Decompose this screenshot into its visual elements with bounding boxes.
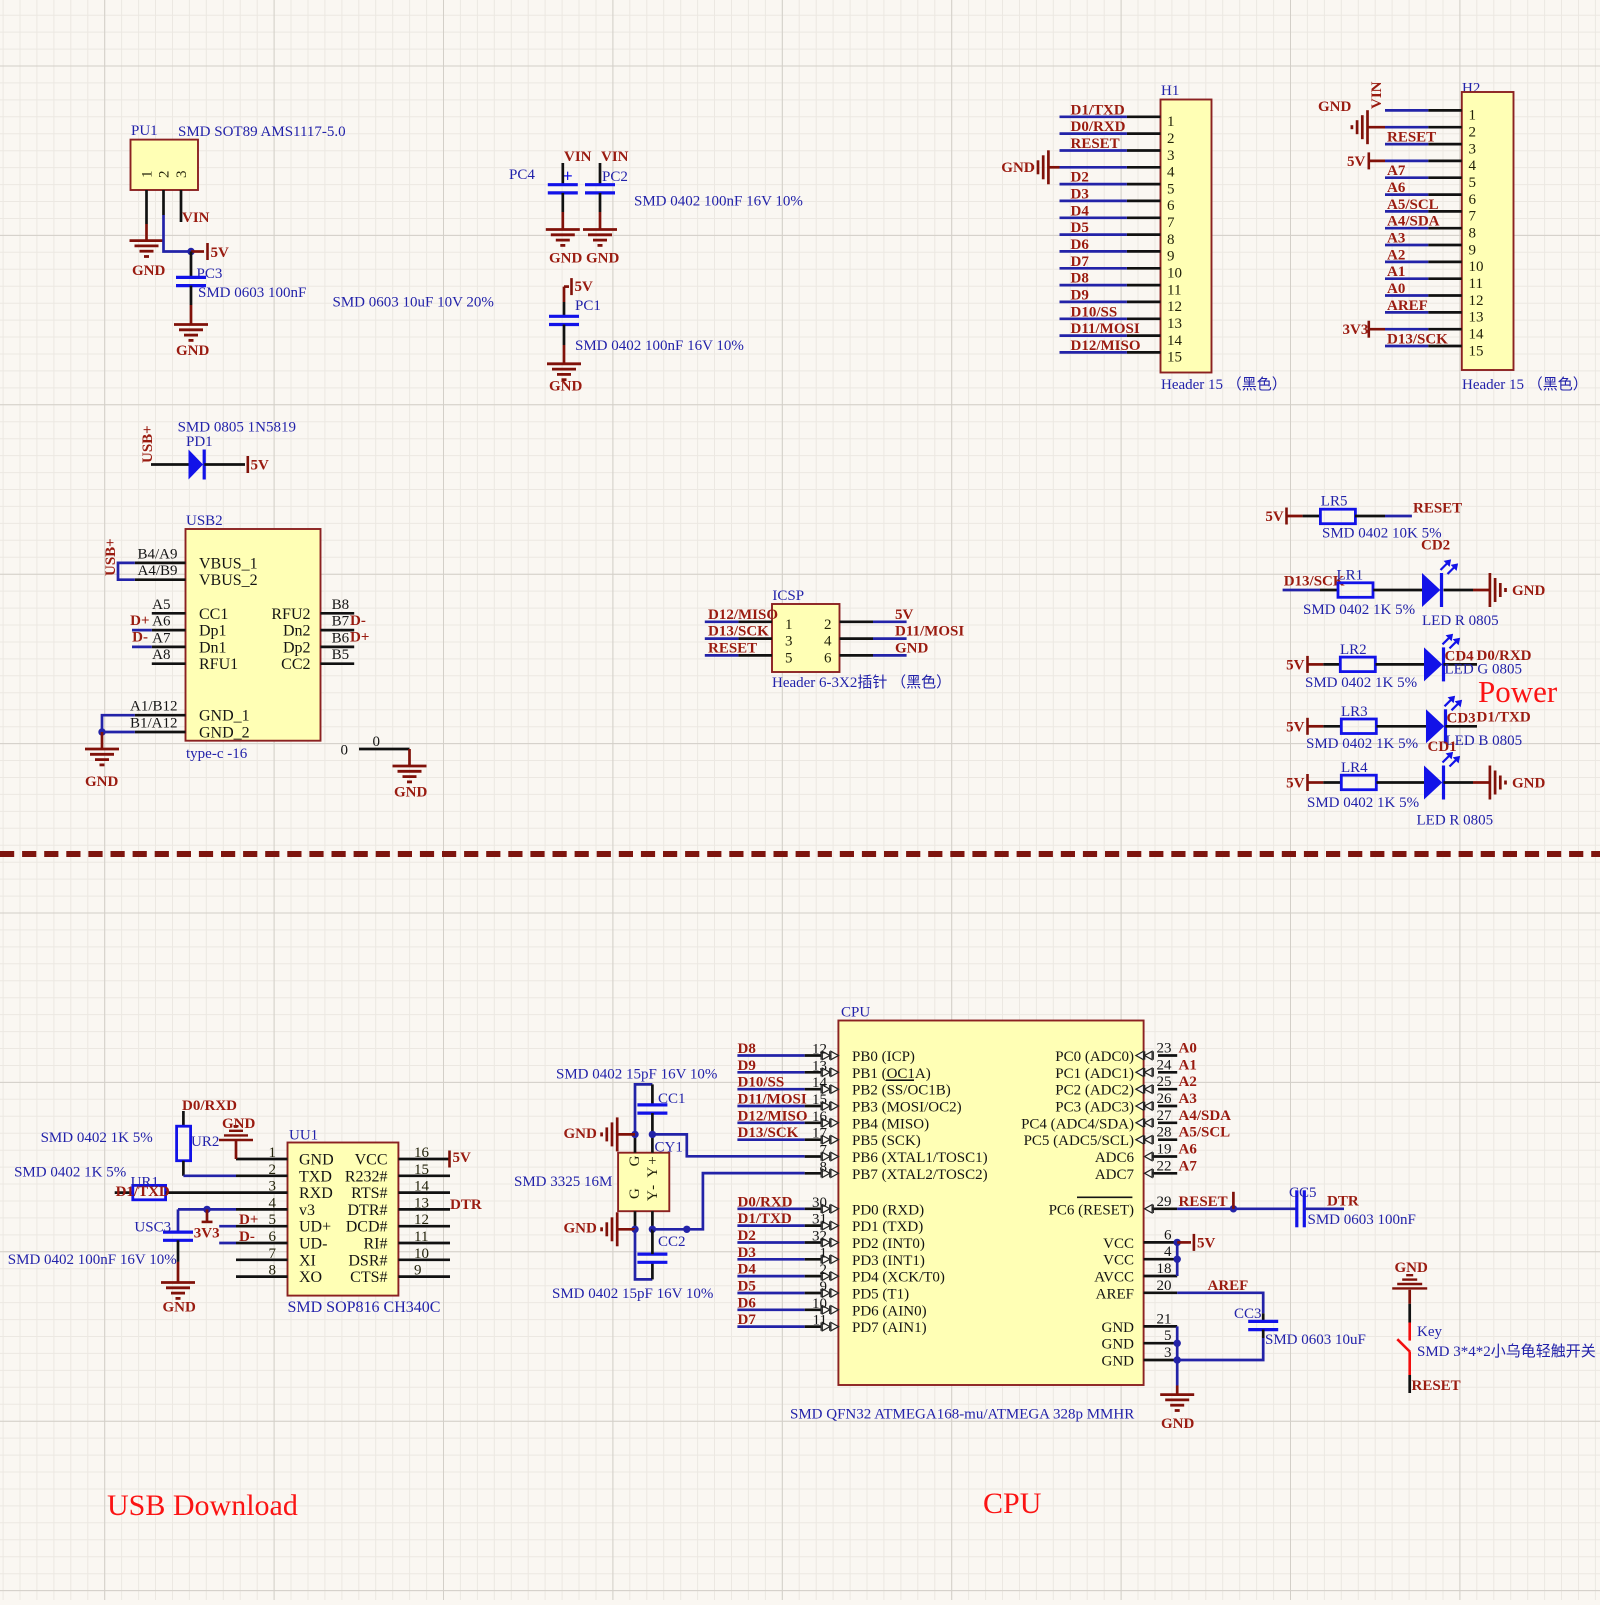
svg-text:GND: GND: [1395, 1260, 1429, 1276]
svg-text:UD-: UD-: [299, 1236, 327, 1253]
svg-text:0: 0: [341, 743, 349, 759]
svg-text:5: 5: [1469, 175, 1477, 191]
svg-text:RFU2: RFU2: [271, 606, 310, 623]
svg-text:AVCC: AVCC: [1094, 1270, 1134, 1286]
svg-text:A8: A8: [152, 647, 170, 663]
svg-text:VIN: VIN: [182, 210, 210, 226]
svg-text:GND: GND: [586, 251, 620, 267]
svg-text:type-c -16: type-c -16: [186, 746, 248, 762]
svg-text:SMD 0402 1K 5%: SMD 0402 1K 5%: [1303, 602, 1415, 618]
svg-text:Key: Key: [1417, 1324, 1442, 1340]
svg-text:D13/SCK: D13/SCK: [738, 1125, 799, 1141]
svg-text:GND: GND: [895, 640, 929, 656]
svg-text:D12/MISO: D12/MISO: [738, 1108, 808, 1124]
svg-text:DTR: DTR: [1327, 1194, 1359, 1210]
svg-text:DTR#: DTR#: [348, 1202, 388, 1219]
svg-text:2: 2: [824, 617, 832, 633]
svg-text:D4: D4: [738, 1262, 757, 1278]
svg-text:12: 12: [812, 1042, 827, 1058]
svg-text:RESET: RESET: [1071, 136, 1120, 152]
svg-text:USB+: USB+: [103, 538, 119, 576]
svg-text:LED B 0805: LED B 0805: [1446, 733, 1523, 749]
svg-text:3: 3: [1167, 148, 1175, 164]
svg-text:PC4: PC4: [509, 167, 535, 183]
svg-text:VCC: VCC: [1103, 1236, 1134, 1252]
svg-text:GND: GND: [1102, 1354, 1135, 1370]
svg-text:Dp2: Dp2: [283, 639, 311, 656]
svg-text:A2: A2: [1179, 1074, 1197, 1090]
svg-text:A7: A7: [1179, 1158, 1198, 1174]
svg-text:30: 30: [812, 1195, 827, 1211]
svg-text:PC1: PC1: [575, 298, 601, 314]
svg-text:AREF: AREF: [1208, 1278, 1249, 1294]
svg-text:v3: v3: [299, 1202, 315, 1219]
svg-text:VBUS_1: VBUS_1: [199, 555, 258, 572]
svg-text:14: 14: [812, 1075, 828, 1091]
svg-text:PB2 (SS/OC1B): PB2 (SS/OC1B): [852, 1083, 951, 1099]
svg-text:SMD 0402 1K 5%: SMD 0402 1K 5%: [1305, 675, 1417, 691]
svg-text:2: 2: [1167, 131, 1175, 147]
svg-text:SMD 0402 1K 5%: SMD 0402 1K 5%: [1307, 795, 1419, 811]
svg-text:USB2: USB2: [186, 513, 223, 529]
svg-text:Dn1: Dn1: [199, 639, 227, 656]
svg-text:SMD 0402 100nF 16V 10%: SMD 0402 100nF 16V 10%: [634, 194, 803, 210]
svg-text:SMD 3325 16M: SMD 3325 16M: [514, 1174, 612, 1190]
svg-text:A1: A1: [1387, 264, 1405, 280]
svg-text:14: 14: [1167, 333, 1183, 349]
svg-text:5V: 5V: [1286, 720, 1305, 736]
svg-text:Header 6-3X2插针 （黑色）: Header 6-3X2插针 （黑色）: [772, 674, 951, 691]
svg-text:A5/SCL: A5/SCL: [1387, 197, 1439, 213]
svg-text:7: 7: [1167, 215, 1175, 231]
svg-text:5V: 5V: [1265, 509, 1284, 525]
svg-text:26: 26: [1157, 1091, 1173, 1107]
svg-text:4: 4: [824, 634, 832, 650]
svg-text:GND: GND: [222, 1116, 256, 1132]
svg-text:7: 7: [820, 1143, 828, 1159]
svg-text:D-: D-: [132, 630, 148, 646]
svg-text:10: 10: [1469, 259, 1484, 275]
svg-text:D10/SS: D10/SS: [1071, 304, 1118, 320]
svg-text:PD1: PD1: [186, 434, 213, 450]
svg-text:27: 27: [1157, 1108, 1173, 1124]
svg-text:CC2: CC2: [658, 1234, 686, 1250]
svg-text:SMD 0402 1K 5%: SMD 0402 1K 5%: [14, 1165, 126, 1181]
svg-text:A4/B9: A4/B9: [137, 563, 177, 579]
svg-text:D11/MOSI: D11/MOSI: [895, 624, 964, 640]
svg-text:CY1: CY1: [655, 1140, 683, 1156]
svg-text:13: 13: [1167, 316, 1182, 332]
svg-text:13: 13: [812, 1058, 827, 1074]
svg-text:Dp1: Dp1: [199, 623, 227, 640]
svg-text:D4: D4: [1071, 203, 1090, 219]
svg-text:D3: D3: [1071, 186, 1089, 202]
svg-text:D1/TXD: D1/TXD: [738, 1211, 792, 1227]
svg-text:3V3: 3V3: [1343, 322, 1369, 338]
svg-text:SMD 3*4*2小乌龟轻触开关: SMD 3*4*2小乌龟轻触开关: [1417, 1343, 1596, 1360]
svg-text:8: 8: [820, 1159, 828, 1175]
svg-text:A7: A7: [1387, 163, 1406, 179]
svg-text:CTS#: CTS#: [350, 1269, 387, 1286]
svg-text:DTR: DTR: [450, 1197, 482, 1213]
svg-text:PC2 (ADC2): PC2 (ADC2): [1055, 1083, 1134, 1099]
svg-text:CC5: CC5: [1289, 1185, 1317, 1201]
svg-text:D1/TXD: D1/TXD: [116, 1184, 170, 1200]
svg-text:CPU: CPU: [841, 1005, 870, 1021]
svg-text:GND_2: GND_2: [199, 725, 250, 742]
svg-text:GND: GND: [394, 785, 428, 801]
svg-text:10: 10: [1167, 266, 1182, 282]
svg-text:23: 23: [1157, 1041, 1172, 1057]
svg-text:GND: GND: [1001, 160, 1035, 176]
svg-text:A5: A5: [152, 597, 170, 613]
svg-text:D0/RXD: D0/RXD: [1071, 119, 1126, 135]
svg-text:LR3: LR3: [1341, 704, 1368, 720]
svg-text:D12/MISO: D12/MISO: [1071, 338, 1141, 354]
svg-text:SMD SOP816 CH340C: SMD SOP816 CH340C: [288, 1299, 441, 1316]
svg-text:8: 8: [1469, 226, 1477, 242]
svg-text:RESET: RESET: [1413, 501, 1462, 517]
svg-text:9: 9: [1167, 249, 1175, 265]
svg-text:9: 9: [1469, 242, 1477, 258]
svg-text:GND: GND: [564, 1221, 598, 1237]
svg-text:ADC6: ADC6: [1095, 1150, 1135, 1166]
svg-text:UU1: UU1: [289, 1128, 318, 1144]
svg-text:B1/A12: B1/A12: [130, 716, 178, 732]
svg-text:D6: D6: [738, 1295, 757, 1311]
svg-text:VBUS_2: VBUS_2: [199, 572, 258, 589]
svg-text:15: 15: [1167, 350, 1182, 366]
svg-text:PC6 (RESET): PC6 (RESET): [1049, 1202, 1134, 1218]
svg-text:D5: D5: [738, 1279, 756, 1295]
svg-text:D0/RXD: D0/RXD: [182, 1098, 237, 1114]
svg-text:VIN: VIN: [1369, 81, 1385, 109]
svg-text:5: 5: [1164, 1328, 1172, 1344]
svg-text:PC2: PC2: [602, 169, 628, 185]
svg-text:LR1: LR1: [1337, 568, 1364, 584]
svg-text:3V3: 3V3: [194, 1226, 220, 1242]
svg-text:A4/SDA: A4/SDA: [1179, 1108, 1232, 1124]
svg-text:B5: B5: [332, 647, 350, 663]
svg-text:10: 10: [812, 1296, 827, 1312]
svg-text:A1/B12: A1/B12: [130, 699, 178, 715]
svg-text:11: 11: [1469, 276, 1483, 292]
svg-text:A3: A3: [1387, 231, 1405, 247]
svg-text:LED R 0805: LED R 0805: [1417, 813, 1494, 829]
svg-text:B8: B8: [332, 597, 350, 613]
svg-text:GND: GND: [1102, 1337, 1135, 1353]
svg-text:TXD: TXD: [299, 1168, 332, 1185]
svg-text:31: 31: [812, 1212, 827, 1228]
svg-text:SMD 0603 10uF: SMD 0603 10uF: [1265, 1332, 1366, 1348]
svg-text:USB Download: USB Download: [107, 1489, 298, 1522]
svg-text:1: 1: [1167, 114, 1175, 130]
svg-text:PC0 (ADC0): PC0 (ADC0): [1055, 1049, 1134, 1065]
svg-text:Power: Power: [1478, 674, 1558, 709]
svg-text:PB3 (MOSI/OC2): PB3 (MOSI/OC2): [852, 1100, 962, 1116]
svg-text:PD2 (INT0): PD2 (INT0): [852, 1236, 925, 1252]
svg-text:PD5 (T1): PD5 (T1): [852, 1287, 909, 1303]
svg-text:4: 4: [1167, 165, 1175, 181]
svg-text:CD2: CD2: [1421, 538, 1450, 554]
svg-text:Y- Y+: Y- Y+: [645, 1154, 661, 1201]
svg-text:PU1: PU1: [131, 123, 158, 139]
svg-text:CC1: CC1: [199, 606, 228, 623]
svg-text:5V: 5V: [1347, 154, 1366, 170]
svg-text:A3: A3: [1179, 1091, 1197, 1107]
svg-text:VIN: VIN: [564, 149, 592, 165]
svg-text:6: 6: [1164, 1227, 1172, 1243]
svg-text:9: 9: [820, 1279, 828, 1295]
svg-text:17: 17: [812, 1126, 828, 1142]
svg-text:13: 13: [1469, 310, 1484, 326]
svg-text:B4/A9: B4/A9: [137, 546, 177, 562]
svg-text:GND: GND: [132, 263, 166, 279]
svg-text:G G: G G: [627, 1147, 643, 1199]
svg-text:1: 1: [785, 617, 793, 633]
svg-text:SMD 0603 100nF: SMD 0603 100nF: [1308, 1212, 1416, 1228]
svg-text:B7: B7: [332, 614, 350, 630]
svg-text:3: 3: [1164, 1345, 1172, 1361]
svg-text:GND: GND: [549, 379, 583, 395]
svg-text:SMD 0402 15pF 16V 10%: SMD 0402 15pF 16V 10%: [552, 1286, 713, 1302]
svg-text:3: 3: [174, 171, 190, 179]
svg-text:6: 6: [1167, 198, 1175, 214]
svg-text:VIN: VIN: [601, 149, 629, 165]
svg-text:GND: GND: [564, 1126, 598, 1142]
svg-text:GND: GND: [1102, 1320, 1135, 1336]
svg-text:14: 14: [1469, 327, 1485, 343]
svg-text:RTS#: RTS#: [351, 1185, 387, 1202]
svg-text:PB5 (SCK): PB5 (SCK): [852, 1133, 921, 1149]
svg-text:D10/SS: D10/SS: [738, 1075, 785, 1091]
svg-text:VCC: VCC: [355, 1152, 388, 1169]
svg-text:LED R 0805: LED R 0805: [1422, 613, 1499, 629]
svg-text:D6: D6: [1071, 237, 1090, 253]
svg-text:CC2: CC2: [281, 656, 310, 673]
svg-text:SMD 0603 10uF 10V 20%: SMD 0603 10uF 10V 20%: [333, 295, 494, 311]
svg-text:SMD 0402 100nF 16V 10%: SMD 0402 100nF 16V 10%: [575, 338, 744, 354]
svg-text:7: 7: [1469, 209, 1477, 225]
svg-text:PB7 (XTAL2/TOSC2): PB7 (XTAL2/TOSC2): [852, 1167, 988, 1183]
svg-text:3: 3: [1469, 141, 1477, 157]
svg-text:A5/SCL: A5/SCL: [1179, 1125, 1231, 1141]
svg-text:D2: D2: [738, 1228, 756, 1244]
svg-text:2: 2: [1469, 125, 1477, 141]
svg-text:16: 16: [812, 1109, 828, 1125]
svg-text:24: 24: [1157, 1057, 1173, 1073]
svg-text:PC3: PC3: [197, 266, 223, 282]
svg-text:D11/MOSI: D11/MOSI: [1071, 321, 1140, 337]
svg-text:H1: H1: [1161, 83, 1179, 99]
svg-text:PB6 (XTAL1/TOSC1): PB6 (XTAL1/TOSC1): [852, 1150, 988, 1166]
svg-text:5: 5: [785, 650, 793, 666]
svg-text:RFU1: RFU1: [199, 656, 238, 673]
svg-text:GND: GND: [549, 251, 583, 267]
svg-text:D5: D5: [1071, 220, 1089, 236]
svg-text:D7: D7: [738, 1312, 757, 1328]
svg-text:11: 11: [813, 1313, 827, 1329]
svg-text:GND_1: GND_1: [199, 708, 250, 725]
svg-text:A0: A0: [1387, 281, 1405, 297]
svg-text:PD4 (XCK/T0): PD4 (XCK/T0): [852, 1270, 945, 1286]
svg-text:PB0 (ICP): PB0 (ICP): [852, 1049, 915, 1065]
svg-text:Dn2: Dn2: [283, 623, 311, 640]
svg-text:12: 12: [1167, 299, 1182, 315]
svg-text:15: 15: [1469, 343, 1484, 359]
svg-text:4: 4: [1164, 1244, 1172, 1260]
svg-text:1: 1: [820, 1245, 828, 1261]
svg-text:1: 1: [1469, 108, 1477, 124]
svg-text:GND: GND: [1512, 776, 1546, 792]
svg-text:D13/SCK: D13/SCK: [1387, 332, 1448, 348]
svg-text:Header 15 （黑色）: Header 15 （黑色）: [1161, 376, 1287, 393]
svg-text:2: 2: [157, 171, 173, 179]
svg-text:UD+: UD+: [299, 1219, 331, 1236]
svg-text:5V: 5V: [1286, 776, 1305, 792]
svg-text:19: 19: [1157, 1142, 1172, 1158]
svg-text:D0/RXD: D0/RXD: [738, 1194, 793, 1210]
svg-text:SMD SOT89 AMS1117-5.0: SMD SOT89 AMS1117-5.0: [178, 124, 346, 140]
svg-text:22: 22: [1157, 1158, 1172, 1174]
svg-text:8: 8: [1167, 232, 1175, 248]
svg-text:D13/SCK: D13/SCK: [708, 624, 769, 640]
svg-text:18: 18: [1157, 1261, 1172, 1277]
svg-text:6: 6: [824, 650, 832, 666]
svg-text:0: 0: [373, 734, 381, 750]
svg-text:12: 12: [1469, 293, 1484, 309]
svg-text:CPU: CPU: [983, 1487, 1042, 1520]
svg-text:1: 1: [140, 171, 156, 179]
svg-text:CC1: CC1: [658, 1091, 686, 1107]
svg-text:GND: GND: [1512, 583, 1546, 599]
svg-text:A6: A6: [1179, 1142, 1198, 1158]
svg-text:CD3: CD3: [1447, 711, 1476, 727]
svg-text:5V: 5V: [1197, 1235, 1216, 1251]
svg-text:4: 4: [1469, 158, 1477, 174]
svg-text:D8: D8: [1071, 271, 1089, 287]
svg-text:A6: A6: [1387, 180, 1406, 196]
svg-text:AREF: AREF: [1387, 298, 1428, 314]
svg-text:D12/MISO: D12/MISO: [708, 607, 778, 623]
svg-text:D+: D+: [350, 630, 369, 646]
svg-text:VCC: VCC: [1103, 1253, 1134, 1269]
svg-text:5V: 5V: [1286, 658, 1305, 674]
svg-text:D11/MOSI: D11/MOSI: [738, 1092, 807, 1108]
svg-text:RESET: RESET: [1179, 1194, 1228, 1210]
svg-text:A0: A0: [1179, 1041, 1197, 1057]
svg-text:PC5 (ADC5/SCL): PC5 (ADC5/SCL): [1024, 1133, 1134, 1149]
svg-text:D-: D-: [239, 1229, 255, 1245]
svg-text:SMD 0402 100nF 16V 10%: SMD 0402 100nF 16V 10%: [8, 1252, 177, 1268]
svg-text:28: 28: [1157, 1125, 1172, 1141]
svg-text:USB+: USB+: [140, 425, 156, 463]
svg-text:GND: GND: [176, 343, 210, 359]
svg-text:5V: 5V: [575, 279, 594, 295]
svg-text:D9: D9: [1071, 287, 1089, 303]
svg-text:A4/SDA: A4/SDA: [1387, 214, 1440, 230]
svg-text:D9: D9: [738, 1058, 756, 1074]
svg-text:GND: GND: [163, 1300, 197, 1316]
svg-text:D+: D+: [239, 1212, 258, 1228]
svg-text:DSR#: DSR#: [348, 1252, 387, 1269]
svg-text:CC3: CC3: [1234, 1306, 1262, 1322]
svg-text:PC4 (ADC4/SDA): PC4 (ADC4/SDA): [1021, 1116, 1134, 1132]
svg-text:LR5: LR5: [1321, 494, 1348, 510]
svg-text:PD7 (AIN1): PD7 (AIN1): [852, 1320, 927, 1336]
svg-text:PB4 (MISO): PB4 (MISO): [852, 1116, 929, 1132]
svg-text:5V: 5V: [453, 1150, 472, 1166]
svg-text:B6: B6: [332, 630, 350, 646]
svg-text:2: 2: [820, 1262, 828, 1278]
svg-text:A2: A2: [1387, 247, 1405, 263]
svg-text:21: 21: [1157, 1311, 1172, 1327]
svg-text:SMD 0402 15pF 16V 10%: SMD 0402 15pF 16V 10%: [556, 1067, 717, 1083]
svg-text:RESET: RESET: [1412, 1378, 1461, 1394]
svg-text:USC3: USC3: [134, 1220, 171, 1236]
svg-text:29: 29: [1157, 1194, 1172, 1210]
svg-text:32: 32: [812, 1229, 827, 1245]
svg-text:RI#: RI#: [364, 1236, 388, 1253]
svg-text:GND: GND: [85, 774, 119, 790]
svg-text:6: 6: [1469, 192, 1477, 208]
svg-text:AREF: AREF: [1096, 1286, 1134, 1302]
svg-text:PD1 (TXD): PD1 (TXD): [852, 1219, 923, 1235]
svg-text:ICSP: ICSP: [772, 588, 804, 604]
svg-text:D2: D2: [1071, 170, 1089, 186]
svg-text:5: 5: [1167, 181, 1175, 197]
svg-text:SMD 0603 100nF: SMD 0603 100nF: [198, 285, 306, 301]
svg-text:3: 3: [785, 634, 793, 650]
svg-text:PD6 (AIN0): PD6 (AIN0): [852, 1303, 927, 1319]
svg-text:25: 25: [1157, 1074, 1172, 1090]
svg-text:PC3 (ADC3): PC3 (ADC3): [1055, 1100, 1134, 1116]
svg-text:GND: GND: [1318, 99, 1352, 115]
svg-text:5V: 5V: [895, 607, 914, 623]
svg-text:D3: D3: [738, 1245, 756, 1261]
svg-text:XO: XO: [299, 1269, 322, 1286]
svg-text:PC1 (ADC1): PC1 (ADC1): [1055, 1066, 1134, 1082]
svg-text:PD3 (INT1): PD3 (INT1): [852, 1253, 925, 1269]
svg-text:SMD 0402 1K 5%: SMD 0402 1K 5%: [41, 1130, 153, 1146]
svg-text:SMD QFN32 ATMEGA168-mu/ATMEGA: SMD QFN32 ATMEGA168-mu/ATMEGA 328p MMHR: [790, 1407, 1134, 1423]
svg-text:RESET: RESET: [708, 640, 757, 656]
svg-text:5V: 5V: [251, 458, 270, 474]
svg-text:20: 20: [1157, 1278, 1172, 1294]
svg-text:A1: A1: [1179, 1057, 1197, 1073]
svg-text:15: 15: [812, 1092, 827, 1108]
svg-text:5V: 5V: [211, 245, 230, 261]
svg-text:Header 15 （黑色）: Header 15 （黑色）: [1462, 376, 1588, 393]
svg-text:DCD#: DCD#: [346, 1219, 388, 1236]
svg-text:A7: A7: [152, 630, 171, 646]
svg-text:XI: XI: [299, 1252, 316, 1269]
svg-text:LR4: LR4: [1341, 760, 1368, 776]
svg-text:SMD 0402 1K 5%: SMD 0402 1K 5%: [1306, 736, 1418, 752]
svg-text:ADC7: ADC7: [1095, 1167, 1135, 1183]
svg-text:GND: GND: [1161, 1416, 1195, 1432]
svg-text:D7: D7: [1071, 254, 1090, 270]
svg-text:D1/TXD: D1/TXD: [1477, 710, 1531, 726]
svg-text:RESET: RESET: [1387, 130, 1436, 146]
svg-text:PD0 (RXD): PD0 (RXD): [852, 1202, 924, 1218]
svg-text:D1/TXD: D1/TXD: [1071, 102, 1125, 118]
svg-text:D+: D+: [130, 613, 149, 629]
svg-text:A6: A6: [152, 614, 171, 630]
svg-text:RXD: RXD: [299, 1185, 333, 1202]
svg-text:GND: GND: [299, 1152, 334, 1169]
svg-text:UR2: UR2: [191, 1134, 219, 1150]
